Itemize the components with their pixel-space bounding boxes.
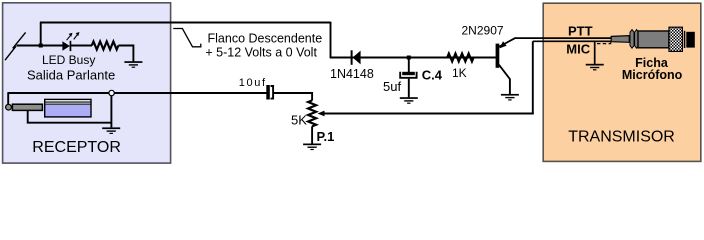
svg-text:RECEPTOR: RECEPTOR xyxy=(32,139,121,156)
ground (pot) xyxy=(303,144,321,151)
svg-text:5uf: 5uf xyxy=(383,79,401,94)
jack knurled ring xyxy=(669,27,682,51)
off-page break symbol xyxy=(5,32,26,60)
LED D1 xyxy=(62,32,79,51)
svg-text:Salida Parlante: Salida Parlante xyxy=(27,67,115,82)
svg-text:PTT: PTT xyxy=(568,23,593,38)
wire: drop to diode line xyxy=(330,22,332,58)
wire: PTT line xyxy=(515,37,612,39)
svg-text:Micrófono: Micrófono xyxy=(622,68,683,82)
svg-text:2N2907: 2N2907 xyxy=(462,24,504,38)
wire: wiper to MIC vertical xyxy=(324,113,534,115)
node junction dot xyxy=(39,44,43,48)
transmisor panel xyxy=(543,3,701,161)
dashed MIC to jack xyxy=(597,42,611,44)
wire: C.4 to ground xyxy=(408,79,410,98)
wire: MIC line xyxy=(533,40,612,42)
wire: LED to resistor xyxy=(71,45,92,47)
wire: plug down and right to ground node xyxy=(28,111,112,123)
wire: audio line to cap xyxy=(114,92,266,94)
wire: MIC corner down to wiper line xyxy=(532,41,534,113)
wire: speaker output horizontal xyxy=(8,92,109,94)
svg-text:1K: 1K xyxy=(452,66,467,80)
receptor panel xyxy=(3,3,171,163)
svg-text:LED Busy: LED Busy xyxy=(42,53,95,67)
ground (speaker node) xyxy=(102,127,120,134)
wire: diode line horizontal xyxy=(330,57,496,59)
transistor collector xyxy=(499,65,510,80)
jack barrel xyxy=(638,31,669,48)
wire: resistor to ground xyxy=(118,46,133,62)
svg-text:C.4: C.4 xyxy=(422,67,443,82)
capacitor 10uf xyxy=(266,85,273,100)
ground (MIC) xyxy=(586,64,604,71)
wire: junction up xyxy=(40,23,42,46)
open node circle xyxy=(109,90,114,95)
wire: down to plug xyxy=(7,92,9,104)
wire: pot to ground xyxy=(311,126,313,143)
svg-text:P.1: P.1 xyxy=(317,129,335,144)
potentiometer 5K body xyxy=(308,100,316,126)
diode 1N4148 xyxy=(351,50,361,65)
svg-text:MIC: MIC xyxy=(566,42,590,57)
wire: node down to ground xyxy=(110,96,112,128)
jack end cap xyxy=(686,32,695,48)
emitter arrow xyxy=(499,41,506,48)
svg-text:TRANSMISOR: TRANSMISOR xyxy=(568,129,675,146)
speaker box xyxy=(45,99,91,117)
transistor emitter (to PTT) xyxy=(499,38,516,47)
wire: top horizontal xyxy=(40,22,331,24)
ground (C.4) xyxy=(400,97,418,104)
plug shaft xyxy=(12,104,42,110)
svg-text:1N4148: 1N4148 xyxy=(330,67,374,81)
resistor 1K xyxy=(447,54,473,62)
falling edge waveform symbol xyxy=(173,29,201,47)
resistor R (LED series) xyxy=(92,42,119,50)
ground (transistor) xyxy=(501,94,519,101)
svg-text:Flanco Descendente: Flanco Descendente xyxy=(208,32,323,46)
wire: break to LED xyxy=(17,45,63,47)
svg-text:5K: 5K xyxy=(291,113,307,128)
wire: node down to C.4 xyxy=(408,58,410,73)
jack collar xyxy=(630,30,639,49)
wire: collector to ground xyxy=(509,79,511,95)
wire: MIC stub to ground xyxy=(594,41,596,64)
jack gap ring xyxy=(684,31,686,48)
wire: cap to pot xyxy=(273,93,312,101)
capacitor C.4 xyxy=(400,72,416,78)
junction dot (C.4 node) xyxy=(407,56,411,60)
transistor Q1 2N2907 base bar xyxy=(496,44,500,68)
pot wiper arrow xyxy=(318,111,325,117)
svg-text:10uf: 10uf xyxy=(239,77,267,89)
svg-text:+ 5-12 Volts a 0 Volt: + 5-12 Volts a 0 Volt xyxy=(205,45,317,59)
plug ball xyxy=(6,104,12,110)
jack shaft xyxy=(611,36,629,43)
ground (LED resistor) xyxy=(124,61,142,68)
